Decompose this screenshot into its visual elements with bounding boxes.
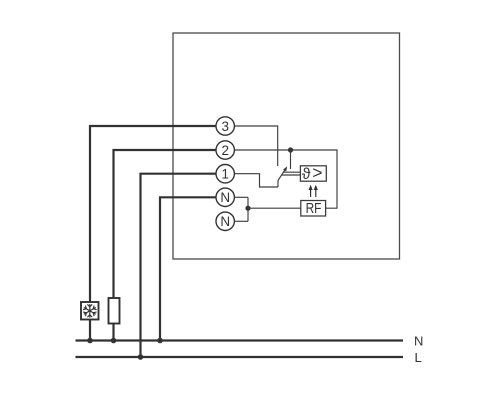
- actuator linkage (double line) to thermostat: [283, 171, 300, 173]
- device outline (receiver unit): [173, 33, 400, 259]
- wire terminal 2 to external: left then down to load resistor: [114, 150, 217, 298]
- terminal N lower: [216, 212, 234, 230]
- junction on N bracket: [245, 206, 250, 211]
- frost-protection device box: [81, 302, 99, 320]
- signal arrow right (RF to thermostat): [315, 189, 317, 198]
- wire terminal N lower to bracket: [234, 220, 248, 222]
- svg-text:RF: RF: [306, 201, 322, 217]
- thermostat box U-theta: [300, 166, 326, 181]
- wire terminal 1 to L bus: [141, 174, 217, 357]
- wire terminal 2 to right loop and RF box right pin: [234, 150, 337, 208]
- junction: resistor wire on N bus: [111, 338, 117, 344]
- RF receiver box: [301, 201, 326, 217]
- bracket joining both N terminals: [247, 197, 249, 221]
- junction: frost-protection wire on N bus: [87, 338, 93, 344]
- svg-text:2: 2: [221, 143, 229, 158]
- junction on wire 2: [288, 147, 293, 152]
- switch blade with arrow: [278, 170, 285, 187]
- terminal 1: [216, 165, 234, 183]
- terminal 3: [216, 117, 234, 135]
- wire terminal 3 to switch fixed contact: [234, 126, 277, 166]
- wire terminal N to N bus: [160, 197, 216, 341]
- L bus line: [76, 356, 404, 358]
- svg-text:N: N: [220, 190, 230, 205]
- snowflake symbol: [83, 304, 96, 317]
- wire N bracket to RF box left pin: [248, 207, 301, 209]
- terminal N upper: [216, 188, 234, 206]
- svg-text:ϑ: ϑ: [302, 166, 311, 183]
- terminal 2: [216, 141, 234, 159]
- junction: terminal N wire on N bus: [157, 338, 163, 344]
- svg-text:N: N: [414, 333, 423, 348]
- signal arrow left (RF to thermostat): [310, 189, 312, 198]
- wire terminal N upper to bracket: [234, 196, 248, 198]
- junction: terminal 1 wire on L bus: [138, 354, 144, 360]
- wire junction down to switch throw contact: [290, 150, 292, 169]
- svg-text:L: L: [415, 350, 422, 365]
- svg-text:3: 3: [221, 119, 229, 134]
- svg-text:N: N: [220, 214, 230, 229]
- wire load resistor to N bus: [112, 324, 114, 342]
- wire terminal 3 to external: left then down to frost-protection box: [90, 126, 216, 302]
- wire frost-protection box to N bus: [89, 320, 91, 342]
- svg-text:>: >: [312, 163, 322, 183]
- N bus line: [76, 339, 404, 341]
- wire terminal 1 to switch common: [234, 174, 278, 187]
- load resistor (heating element): [109, 298, 120, 324]
- svg-text:1: 1: [221, 167, 229, 182]
